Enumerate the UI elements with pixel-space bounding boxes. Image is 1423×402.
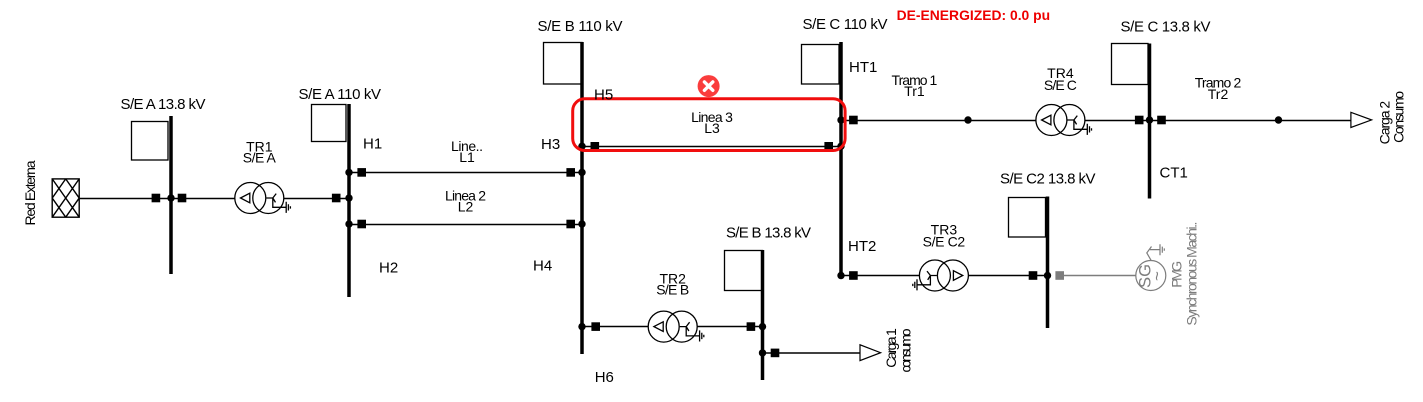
svg-text:Tr1: Tr1 [904, 83, 925, 99]
svg-text:S/E B 13.8 kV: S/E B 13.8 kV [726, 225, 811, 242]
svg-text:S/E C2: S/E C2 [923, 234, 966, 250]
svg-text:Consumo: Consumo [1391, 91, 1407, 143]
svg-text:L1: L1 [459, 149, 475, 165]
svg-text:S/E C 13.8 kV: S/E C 13.8 kV [1121, 19, 1211, 36]
svg-text:S/E B: S/E B [656, 282, 689, 298]
svg-text:S/E C 110 kV: S/E C 110 kV [803, 16, 888, 33]
svg-text:~: ~ [1148, 271, 1167, 281]
svg-text:H1: H1 [363, 136, 382, 153]
svg-text:S/E A 13.8 kV: S/E A 13.8 kV [121, 96, 206, 113]
svg-text:H3: H3 [541, 136, 560, 153]
svg-text:S/E C: S/E C [1044, 77, 1077, 93]
svg-text:S/E A 110 kV: S/E A 110 kV [299, 86, 382, 103]
svg-text:Tr2: Tr2 [1208, 86, 1229, 102]
svg-text:S/E C2 13.8 kV: S/E C2 13.8 kV [1000, 170, 1096, 187]
svg-text:H2: H2 [379, 260, 398, 277]
svg-text:L3: L3 [704, 120, 720, 136]
svg-text:consumo: consumo [898, 328, 914, 372]
svg-text:S/E A: S/E A [243, 150, 277, 166]
svg-text:CT1: CT1 [1160, 165, 1188, 182]
svg-text:PMG: PMG [1169, 261, 1185, 288]
svg-text:Red Externa: Red Externa [22, 160, 38, 225]
svg-text:H4: H4 [533, 258, 552, 275]
svg-text:S/E B 110 kV: S/E B 110 kV [538, 18, 623, 35]
svg-text:HT1: HT1 [849, 59, 877, 76]
svg-text:H5: H5 [594, 86, 613, 103]
svg-text:H6: H6 [595, 369, 614, 386]
svg-text:DE-ENERGIZED: 0.0 pu: DE-ENERGIZED: 0.0 pu [897, 7, 1051, 23]
svg-text:Synchronous Machi..: Synchronous Machi.. [1184, 222, 1200, 326]
svg-text:HT2: HT2 [848, 238, 876, 255]
svg-text:L2: L2 [458, 199, 474, 215]
